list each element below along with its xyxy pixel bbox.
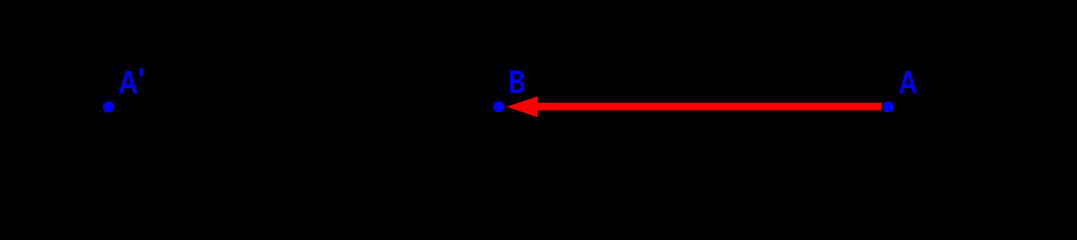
svg-text:A: A bbox=[898, 65, 917, 101]
svg-text:B: B bbox=[508, 64, 525, 100]
label B bbox=[508, 64, 525, 100]
label A' bbox=[118, 63, 144, 101]
point B bbox=[493, 101, 504, 112]
vector arrow from point A to point B bbox=[507, 96, 882, 117]
label A bbox=[898, 65, 917, 101]
svg-text:A': A' bbox=[118, 63, 144, 101]
point A bbox=[883, 101, 894, 112]
point A' bbox=[103, 101, 114, 112]
